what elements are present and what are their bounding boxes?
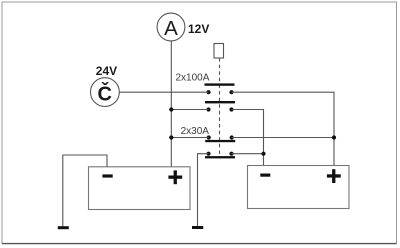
junction node on ammeter wire row2 [169,107,173,111]
svg-text:2x100A: 2x100A [176,73,210,84]
contact K2b bridge bar (30A, closed) [205,156,235,158]
wire K1b right to battery B2 minus [232,110,264,166]
wire ammeter down to battery B1 plus [170,41,172,167]
wire node to K1b left [171,109,208,111]
svg-text:2x30A: 2x30A [181,126,210,137]
ground G1 [58,226,69,229]
svg-text:12V: 12V [188,22,209,36]
junction node on B2 plus wire [332,135,336,139]
battery B1 box [89,167,191,210]
contact K1a bridge bar (100A, open) [205,83,235,85]
contact K1b right terminal [229,107,233,111]
battery B1 plus mark [168,176,182,179]
contact K2a left terminal [207,135,211,139]
wire B1 minus to ground [63,155,107,226]
wire K1a right to battery B2 plus [232,92,335,165]
wire node to K2a left [171,137,208,139]
mechanical link dashed line [219,58,221,156]
battery B2 plus mark [327,174,341,177]
switch actuator coil box [214,44,224,59]
contact K2a right terminal [230,135,234,139]
contact K2a bridge bar (30A, closed) [205,140,235,142]
svg-text:Č: Č [97,82,111,106]
wire C meter to K1a left [119,91,208,93]
ammeter A1 circle [157,13,185,41]
contact K2b right terminal [229,152,233,156]
battery B2 box [248,166,350,209]
battery B2 minus mark [260,174,270,177]
ground G2 [192,226,203,229]
wire K2a right to plus wire [232,137,334,139]
contact K1a right terminal [229,90,233,94]
wire K2b right to minus wire [232,153,264,155]
contact K1b bridge bar (100A, open) [205,101,235,103]
voltmeter C (Č) circle [91,78,120,107]
svg-text:A: A [164,17,178,40]
contact K2b left terminal [206,152,210,156]
contact K1a left terminal [206,90,210,94]
battery B1 minus mark [102,174,112,177]
junction node on B2 minus wire [261,152,265,156]
junction node on ammeter wire row3 [169,135,173,139]
contact K1b left terminal [206,107,210,111]
wire K2b left to ground [198,154,209,226]
svg-text:24V: 24V [96,64,117,78]
